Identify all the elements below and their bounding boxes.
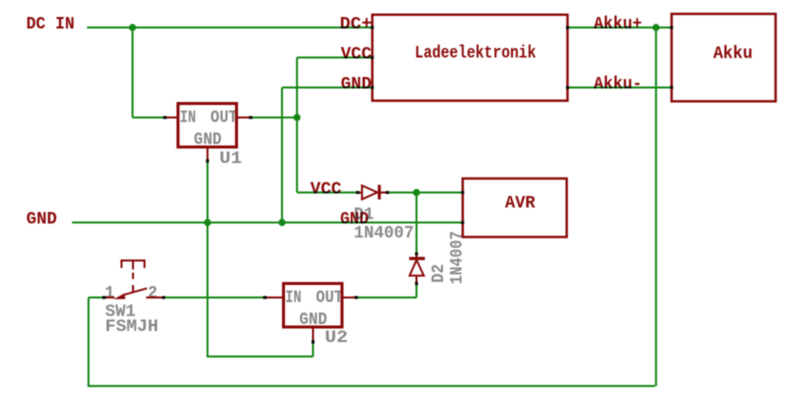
wire VCC rail to Ladeelektronik [297,57,372,59]
wire GND to Ladeelektronik [282,87,372,89]
wire U1 GND down [207,163,209,357]
wire GND vertical from Ladeelektronik [281,88,283,223]
wire U2 GND up [312,343,314,357]
wire SW1 pin2 to U2 IN [165,297,264,299]
wire DCIN junction down to U1 level [132,28,134,118]
U2 OUT pin tip [355,296,358,299]
SW1 pin 1 tip [102,296,105,299]
svg-text:U1: U1 [219,149,242,169]
junction DC IN [129,24,136,31]
voltage regulator U1 body [178,104,237,148]
U1 OUT pin tip [249,116,252,119]
svg-text:OUT: OUT [210,108,237,128]
SW1 pin 2 [146,297,162,299]
wire DC IN horizontal [87,27,372,29]
wire into U1 IN [133,117,164,119]
AVR GND pin mark [461,221,464,224]
AVR VCC pin mark [461,191,464,194]
svg-text:DC+: DC+ [340,15,372,35]
SW1 blade [123,288,148,295]
Ladeelektronik DC+ pin mark [371,26,374,29]
svg-text:GND: GND [26,210,57,230]
SW1 blade arrowhead [113,294,125,300]
wire Akku+ vertical right [655,28,657,387]
diode D1 anode pin tip [356,191,359,194]
diode D2 cathode bar [409,257,425,260]
svg-text:VCC: VCC [310,180,342,200]
SW1 pin 2 tip [162,296,165,299]
svg-text:Akku: Akku [713,44,753,64]
voltage regulator U2 body [284,284,343,328]
wire U2 OUT to D2 [358,297,417,299]
wire up to D2 anode [416,285,418,298]
svg-text:D2: D2 [429,264,449,283]
svg-text:IN: IN [285,288,301,308]
junction D1-D2 cathodes / AVR VCC [413,189,420,196]
junction U1 OUT / VCC rail [293,114,300,121]
svg-text:Akku-: Akku- [594,74,642,94]
svg-text:GND: GND [341,75,372,95]
svg-text:DC IN: DC IN [26,14,74,34]
diode D1 anode pin [359,192,363,194]
U2 IN pin tip [263,296,266,299]
wire into SW1 pin 1 [89,297,103,299]
diode D2 cathode pin [416,255,418,258]
SW1 actuator dashed link [132,273,134,293]
wire VCC to D1 anode [297,192,357,194]
U2 OUT pin [344,297,356,299]
diode D2 triangle [410,260,424,276]
Ladeelektronik VCC pin mark [371,56,374,59]
svg-text:Ladeelektronik: Ladeelektronik [415,44,536,64]
U1 GND pin [207,147,209,160]
Ladeelektronik GND pin mark [371,86,374,89]
svg-text:IN: IN [180,108,196,128]
junction GND / U1 GND [204,219,211,226]
wire U2 GND horizontal [207,356,314,358]
block AVR [463,179,567,238]
U1 IN pin [167,117,179,119]
diode D1 cathode bar [378,185,381,200]
wire D2 cathode to AVR VCC [416,193,418,253]
Akku box - pin mark [670,86,673,89]
U2 GND pin tip [312,340,315,343]
U1 IN pin tip [163,116,166,119]
SW1 pin 1 [106,297,115,299]
diode D1 cathode pin [381,192,387,194]
Ladeelektronik Akku- pin mark [566,86,569,89]
diode D2 anode pin [416,276,418,282]
svg-text:U2: U2 [325,328,348,348]
svg-text:GND: GND [340,210,369,230]
wire U1 OUT to VCC rail [252,117,298,119]
diode D1 cathode pin tip [386,191,389,194]
block Ladeelektronik [372,15,567,101]
wire Akku- horizontal [569,87,671,89]
wire bottom horizontal [89,385,656,387]
svg-text:Akku+: Akku+ [594,15,642,35]
wire Akku+ horizontal [569,27,671,29]
Ladeelektronik Akku+ pin mark [566,26,569,29]
svg-text:1N4007: 1N4007 [448,231,468,284]
wire left vertical to switch [88,298,90,388]
junction GND / Ladeelektronik GND [278,219,285,226]
Akku box + pin mark [670,26,673,29]
wire VCC rail vertical [296,58,298,193]
svg-text:2: 2 [148,283,158,303]
SW1 actuator stem [132,261,134,270]
wire GND main horizontal [72,222,463,224]
junction Akku+ [652,24,659,31]
U2 GND pin [312,327,314,341]
svg-text:1: 1 [105,283,115,303]
U1 GND pin tip [206,159,209,162]
svg-text:OUT: OUT [316,288,343,308]
block Akku [672,14,776,101]
diode D1 triangle [362,186,377,200]
diode D2 anode pin tip [415,282,418,285]
wire D1 cathode to AVR VCC [389,192,463,194]
svg-text:VCC: VCC [341,45,372,65]
diode D2 cathode pin tip [415,252,418,255]
U1 OUT pin [238,117,250,119]
U2 IN pin [267,297,284,299]
svg-text:FSMJH: FSMJH [105,317,158,337]
SW1 actuator bar [122,261,145,269]
svg-text:AVR: AVR [505,193,536,213]
